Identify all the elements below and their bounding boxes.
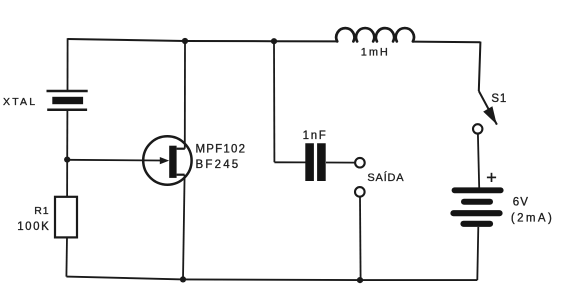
wire: crystal to gate node (66, 110, 68, 160)
svg-text:MPF102: MPF102 (196, 143, 247, 155)
switch S1 blade (479, 91, 497, 125)
wire: top rail left segment (top-left corner to inductor) (68, 39, 337, 41)
label + (battery polarity) (487, 173, 496, 182)
terminal: switch circle (473, 124, 482, 133)
wire: source down to bottom rail (183, 175, 185, 280)
svg-text:6V: 6V (513, 196, 529, 208)
terminal: output lower circle (355, 187, 365, 197)
capacitor C1 1nF (310, 143, 322, 181)
svg-text:100K: 100K (17, 221, 50, 233)
transistor drain stub (177, 148, 185, 150)
wire: gate node to R1 (66, 160, 68, 198)
svg-text:S1: S1 (491, 93, 507, 105)
wire: top rail right segment (inductor to top-right corner) (413, 41, 481, 44)
wire: R1 to bottom-left corner (65, 237, 68, 277)
inductor L1 1mH (336, 28, 414, 41)
wire: gate lead from node to transistor (67, 159, 161, 162)
svg-text:XTAL: XTAL (3, 96, 37, 108)
node: gate junction dot (64, 157, 70, 163)
wire: lower terminal to bottom rail (359, 197, 362, 280)
wire: cap branch vertical (273, 41, 275, 162)
battery B1 (454, 190, 501, 224)
node: capacitor branch junction dot on top rail (271, 38, 277, 44)
svg-text:1nF: 1nF (303, 130, 328, 142)
switch S1 arrowhead (483, 106, 497, 124)
svg-text:R1: R1 (34, 205, 49, 217)
wire: switch terminal to battery (478, 134, 479, 188)
wire: cap branch horizontal to capacitor (274, 161, 306, 163)
terminal: output upper circle (355, 158, 365, 168)
wire: battery to bottom-right corner (477, 227, 478, 280)
node: drain/top-rail junction dot (182, 38, 188, 44)
wire: capacitor to output terminal (326, 162, 355, 164)
node: output/bottom-rail junction dot (357, 277, 363, 283)
wire: right column from top corner to switch (479, 42, 481, 91)
transistor source stub (177, 174, 185, 176)
wire: bottom rail (66, 277, 477, 281)
transistor Q1 channel bar (169, 146, 176, 178)
svg-text:SAÍDA: SAÍDA (367, 171, 404, 184)
crystal XTAL (47, 91, 88, 110)
gate arrowhead (160, 157, 169, 164)
svg-text:BF245: BF245 (196, 159, 241, 171)
resistor R1 (55, 197, 77, 238)
wire: drain up to top rail (184, 41, 186, 149)
svg-text:(2mA): (2mA) (511, 213, 554, 225)
wire: left column top (corner down to crystal) (67, 38, 69, 90)
svg-text:1mH: 1mH (361, 46, 390, 58)
transistor Q1 circle (143, 136, 191, 184)
node: source/bottom-rail junction dot (180, 276, 186, 282)
